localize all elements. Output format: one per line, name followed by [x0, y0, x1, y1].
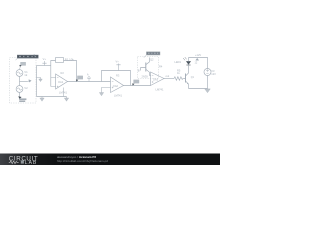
wire stage1 bottom: [37, 96, 67, 98]
svg-text:R2: R2: [61, 71, 65, 75]
op-amp U2: [111, 77, 124, 93]
source V3 (battery): [204, 69, 211, 76]
ground G3: [99, 93, 103, 96]
svg-text:LM741: LM741: [156, 88, 164, 92]
title label of box B1: [17, 55, 39, 59]
net flag N3 (dark): [132, 80, 139, 86]
svg-text:V+: V+: [43, 57, 47, 61]
wire top right: [189, 58, 208, 69]
dashed box B1 (input sources): [10, 58, 37, 104]
svg-text:12: 12: [195, 61, 198, 64]
logo LAB: [21, 160, 24, 163]
source V2 (signal generator): [16, 86, 23, 93]
transistor Q2 inside box: [145, 63, 147, 72]
svg-text:R1 10k: R1 10k: [65, 57, 74, 61]
svg-text:R3: R3: [116, 74, 120, 78]
svg-text:OA2: OA2: [113, 84, 119, 88]
feedback loop stage2: [102, 71, 131, 86]
ground G2: [66, 97, 68, 99]
op-amp U1: [56, 74, 68, 89]
svg-text:A: A: [87, 73, 89, 77]
svg-text:OA1: OA1: [58, 80, 64, 84]
ground stub G1: [37, 78, 41, 80]
wire input horizontal: [37, 65, 51, 67]
svg-text:Q2: Q2: [150, 58, 154, 62]
resistor R1 (box): [56, 58, 64, 63]
svg-text:V+: V+: [116, 59, 120, 63]
svg-text:http://circuitlab.com/c/4vj7/a: http://circuitlab.com/c/4vj7/acionam-p2: [57, 159, 108, 163]
transistor Q1: [185, 74, 187, 83]
wire branch to flag: [20, 81, 28, 83]
op-amp U1 power pin: [63, 88, 65, 97]
ground G2b: [41, 97, 43, 99]
svg-text:LM741: LM741: [114, 93, 122, 97]
op-amp U2 lower input to ground: [102, 88, 111, 93]
svg-text:12V: 12V: [211, 72, 216, 76]
supply flag P2: [116, 64, 120, 71]
op-amp U3: [151, 72, 165, 86]
LED arrows: [183, 57, 186, 60]
net flag N1 (dark): [76, 76, 83, 82]
svg-text:OA3: OA3: [153, 77, 159, 81]
footer bar: [0, 154, 220, 166]
svg-text:LAB: LAB: [25, 160, 37, 165]
microphone dark tag: [18, 96, 26, 102]
title label of box B2: [146, 52, 160, 56]
wire U3 output: [164, 78, 174, 80]
svg-text:B: B: [138, 69, 140, 73]
svg-text:2N39: 2N39: [142, 74, 149, 78]
net flag N2 (gray): [87, 76, 90, 81]
wire U2 output: [124, 85, 151, 87]
wire Q2 emitter to U3: [150, 75, 152, 77]
LED D1: [186, 61, 190, 64]
svg-text:V2: V2: [24, 86, 28, 90]
source V1 (signal generator): [16, 70, 23, 77]
ground G4: [205, 89, 211, 93]
wire V1 to V2: [19, 76, 21, 85]
supply flag P3: [196, 58, 199, 60]
svg-text:Q1: Q1: [191, 76, 195, 79]
logo zigzag: [9, 161, 19, 164]
wire V3 down: [189, 76, 208, 89]
wire label-to-source: [19, 67, 22, 70]
dashed box B2: [138, 57, 159, 79]
feedback loop stage1: [51, 61, 77, 87]
resistor R5 (zigzag): [174, 77, 184, 81]
wire below V2: [19, 92, 21, 96]
svg-text:+12V: +12V: [195, 53, 201, 57]
wire left vertical: [36, 66, 38, 97]
wire U1 output: [68, 81, 111, 83]
svg-text:R4: R4: [159, 65, 163, 69]
net flag arrow: [28, 80, 32, 82]
svg-text:out: out: [166, 74, 170, 78]
value label above source V1 (dark tag): [19, 62, 26, 67]
svg-text:LED1: LED1: [175, 60, 182, 64]
supply flag P1: [42, 61, 46, 66]
